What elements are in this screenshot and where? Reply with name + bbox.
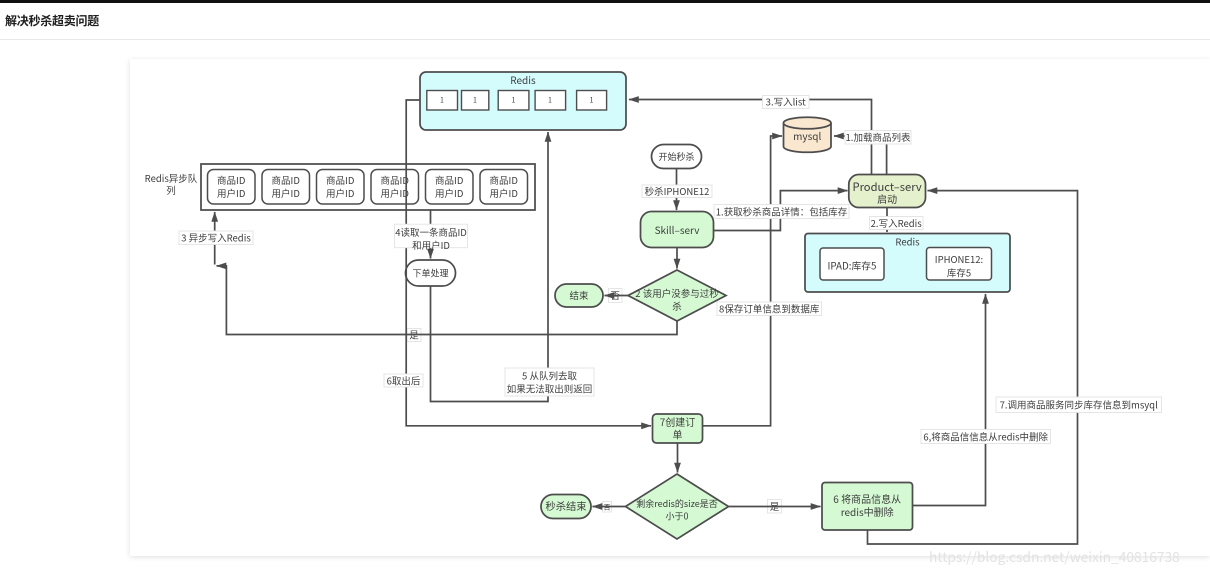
wire: 2.写入Redis (Product-serv down to Redis store): [886, 208, 888, 232]
label: Redis异步队列: [145, 171, 198, 197]
node: redis slot 5: [577, 91, 607, 111]
svg-text:2.写入Redis: 2.写入Redis: [871, 216, 923, 230]
svg-text:商品ID: 商品ID: [217, 173, 245, 187]
label: 7.调用商品服务同步库存信息到msyql: [996, 397, 1162, 413]
svg-text:5 从队列去取: 5 从队列去取: [522, 369, 577, 383]
label: 是 (decision 2): [407, 328, 421, 342]
label: 秒杀IPHONE12: [642, 184, 712, 198]
svg-text:用户ID: 用户ID: [272, 186, 300, 200]
svg-text:商品ID: 商品ID: [381, 173, 409, 187]
node: Product-serv 启动: [849, 175, 926, 208]
node: queue item 4 商品ID 用户ID: [371, 170, 419, 205]
svg-text:启动: 启动: [877, 191, 897, 206]
svg-text:6取出后: 6取出后: [387, 374, 421, 388]
wire: 5 从队列去取 (下单处理 to Redis list): [431, 132, 549, 402]
node: 秒杀结束 pill: [541, 495, 591, 519]
node: redis slot 3: [498, 91, 529, 111]
node: decision 3 剩余redis的size是否小于0: [626, 474, 729, 539]
svg-text:IPAD:库存5: IPAD:库存5: [828, 259, 877, 273]
svg-text:秒杀结束: 秒杀结束: [545, 498, 586, 513]
svg-text:Skill–serv: Skill–serv: [655, 222, 701, 237]
svg-text:mysql: mysql: [793, 128, 821, 143]
svg-text:IPHONE12:: IPHONE12:: [935, 252, 983, 266]
wire: 1.获取秒杀商品详情 (Skill-serv to Product-serv): [714, 191, 848, 231]
label: 3.写入list: [763, 95, 810, 109]
svg-text:Redis: Redis: [510, 72, 536, 87]
svg-text:商品ID: 商品ID: [272, 173, 300, 187]
node: IPAD:库存5: [820, 248, 884, 280]
svg-text:结束: 结束: [569, 288, 589, 302]
node: redis slot 2: [462, 91, 489, 111]
wire: 3 异步写入Redis (up into queue): [214, 212, 216, 265]
svg-text:1.获取秒杀商品详情：包括库存: 1.获取秒杀商品详情：包括库存: [716, 205, 848, 219]
svg-text:redis中删除: redis中删除: [841, 504, 894, 519]
wire: decision 2 是 path back to queue write arrow: [217, 266, 678, 335]
wire: 3.写入list (Product-serv top to Redis list box): [629, 100, 872, 175]
node: 下单处理 pill: [406, 260, 456, 286]
label: 1.获取秒杀商品详情：包括库存: [714, 205, 849, 219]
svg-text:1: 1: [512, 96, 516, 106]
wire: decision 2 否 to 结束: [605, 295, 629, 297]
label: 6,将商品信信息从redis中删除: [921, 430, 1051, 444]
svg-text:4读取一条商品ID: 4读取一条商品ID: [395, 225, 467, 239]
node: queue item 6 商品ID 用户ID: [480, 170, 528, 205]
svg-text:7.调用商品服务同步库存信息到msyql: 7.调用商品服务同步库存信息到msyql: [1000, 398, 1158, 412]
wire: 4读取 queue to 下单处理: [430, 210, 432, 259]
svg-text:剩余redis的size是否: 剩余redis的size是否: [636, 497, 718, 510]
label: 否 small (decision 3): [603, 502, 612, 513]
svg-text:1: 1: [590, 96, 594, 106]
svg-text:和用户ID: 和用户ID: [412, 238, 450, 252]
svg-text:8保存订单信息到数据库: 8保存订单信息到数据库: [719, 302, 820, 316]
wire: 6取出后 (Redis list to 7创建订单): [406, 100, 651, 426]
label: 4读取一条商品ID 和用户ID: [395, 224, 468, 252]
page title 解决秒杀超卖问题: [5, 12, 99, 29]
wire: decision 3 是 to 删除 box: [729, 506, 821, 508]
svg-text:Redis: Redis: [895, 235, 920, 249]
label: 1.加载商品列表: [845, 130, 911, 144]
label: 8保存订单信息到数据库: [717, 302, 822, 316]
svg-text:开始秒杀: 开始秒杀: [658, 150, 694, 163]
svg-text:用户ID: 用户ID: [381, 186, 409, 200]
wire: 6,将商品信信息从redis中删除 (box to Redis store): [913, 294, 986, 506]
node: Redis异步队列 outer box: [201, 164, 535, 210]
node: Redis store box (cyan): [805, 234, 1010, 293]
svg-text:否: 否: [604, 503, 611, 513]
node: redis slot 4: [535, 91, 566, 111]
node: queue item 5 商品ID 用户ID: [426, 170, 474, 205]
node: queue item 2 商品ID 用户ID: [262, 170, 310, 205]
label: 3 异步写入Redis: [179, 231, 253, 245]
node: decision 2 该用户没参与过秒杀: [628, 270, 726, 321]
svg-text:如果无法取出则返回: 如果无法取出则返回: [507, 382, 593, 396]
wire: 7创建订单 to decision 3: [677, 443, 679, 472]
svg-text:列: 列: [166, 183, 176, 197]
node: IPHONE12:库存5: [927, 248, 992, 281]
svg-text:下单处理: 下单处理: [412, 267, 448, 280]
node: redis slot 1: [427, 91, 458, 111]
svg-text:秒杀IPHONE12: 秒杀IPHONE12: [645, 184, 710, 198]
svg-text:小于0: 小于0: [666, 510, 689, 523]
header separator line: [0, 39, 1210, 40]
label: 2.写入Redis: [870, 216, 924, 230]
node: queue item 3 商品ID 用户ID: [317, 170, 365, 205]
label: 否 (decision 2): [609, 288, 623, 303]
node: 6 将商品信息从redis中删除 box: [822, 483, 913, 531]
svg-text:用户ID: 用户ID: [326, 186, 354, 200]
svg-text:商品ID: 商品ID: [326, 173, 354, 187]
node: mysql cylinder: [784, 117, 832, 152]
svg-text:1.加载商品列表: 1.加载商品列表: [846, 130, 911, 144]
svg-text:商品ID: 商品ID: [435, 173, 463, 187]
svg-text:3.写入list: 3.写入list: [766, 95, 806, 109]
svg-text:6,将商品信信息从redis中删除: 6,将商品信信息从redis中删除: [923, 430, 1048, 444]
svg-text:1: 1: [440, 96, 444, 106]
svg-text:杀: 杀: [672, 299, 682, 313]
node: 开始秒杀 pill: [652, 145, 702, 169]
white content panel: [130, 59, 1210, 557]
svg-text:用户ID: 用户ID: [217, 186, 245, 200]
watermark: [929, 546, 1180, 566]
svg-text:1: 1: [473, 96, 477, 106]
svg-text:商品ID: 商品ID: [490, 173, 518, 187]
svg-text:单: 单: [673, 427, 683, 442]
node: 7创建订单: [653, 414, 703, 443]
label: 6取出后: [384, 374, 423, 388]
svg-text:库存5: 库存5: [947, 265, 971, 279]
svg-text:1: 1: [548, 96, 552, 106]
wire: 8保存订单信息到数据库 (7创建订单 to mysql): [703, 136, 782, 426]
wire: Skill-serv to decision 2: [676, 248, 678, 269]
wire: decision 3 否 to 秒杀结束: [593, 506, 626, 508]
wire: 1.加载商品列表 (Product-serv top to mysql): [834, 136, 887, 174]
svg-text:3 异步写入Redis: 3 异步写入Redis: [181, 231, 251, 245]
svg-text:用户ID: 用户ID: [435, 186, 463, 200]
label: 是 (decision 3): [768, 499, 782, 513]
node: queue item 1 商品ID 用户ID: [208, 170, 256, 205]
wire: 7.调用商品服务同步库存信息到msyql (box to Product-serv): [868, 191, 1078, 544]
svg-text:用户ID: 用户ID: [490, 186, 518, 200]
label: 5 从队列去取 如果无法取出则返回: [505, 368, 594, 396]
node: Redis list box (cyan): [420, 72, 626, 130]
svg-text:2 该用户没参与过秒: 2 该用户没参与过秒: [635, 286, 719, 300]
top black bar: [0, 0, 1210, 3]
node: 结束 pill: [555, 284, 603, 307]
node: Skill-serv: [641, 212, 714, 248]
wire: 开始秒杀 to Skill-serv: [676, 169, 678, 210]
